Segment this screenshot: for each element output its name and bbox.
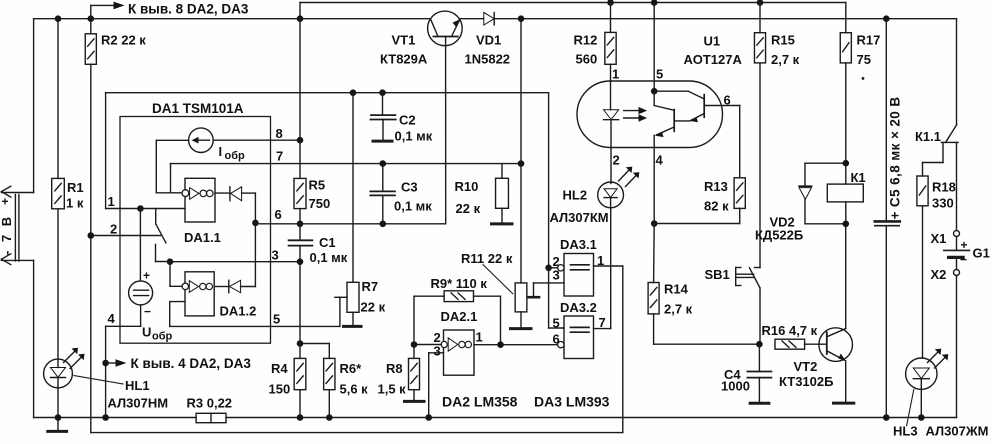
svg-text:R3 0,22: R3 0,22 [187,396,233,411]
node dot ref-C2 [379,89,386,96]
svg-text:5,6 к: 5,6 к [340,382,369,397]
wire pin4 common column [105,93,107,418]
svg-text:750: 750 [309,196,331,211]
node dot DA3.1 pin2 [545,265,552,272]
ground under HL1 [48,418,67,432]
HL1 light arrows [64,348,85,369]
label R13 [704,179,729,214]
svg-text:G1: G1 [973,246,990,261]
ground bar under R11 [511,327,532,330]
node dot pin7-C3 [380,160,387,167]
label DA2.1 pin2 [434,330,441,345]
label R14 [664,282,693,317]
node dot DA2 pin3 rail [425,414,432,421]
resistor R6 [324,358,335,417]
connector X1 [954,231,960,251]
label U1 pin5 [656,67,663,82]
svg-text:3: 3 [272,248,279,263]
wire DA3.2 pin5 [549,327,564,329]
node dot rail R2 [88,15,95,22]
label DA1 pin 8 [276,126,283,141]
wire DA1 pin2 [91,235,161,237]
label U1 [684,34,743,68]
svg-text:DA1.1: DA1.1 [184,230,221,245]
label DA3.2 pin5 num [553,316,560,331]
node dot R4 rail [297,414,304,421]
svg-text:6: 6 [553,332,560,347]
U1 phototransistor [651,3,740,148]
transistor VT1 [428,11,463,224]
svg-text:R18: R18 [932,180,956,195]
svg-text:0,1 мк: 0,1 мк [394,199,432,214]
label G1 minus [960,253,967,267]
wire I_obr left to DA1.1 input [156,140,188,193]
label R7 [361,279,386,315]
svg-text:АЛ307ЖМ: АЛ307ЖМ [926,424,989,439]
node dot pin4 R14 [651,220,658,227]
svg-text:+ С5 6,8 мк × 20 В: + С5 6,8 мк × 20 В [888,96,903,219]
svg-text:6: 6 [275,207,282,222]
wire R14 to R16 node [654,343,760,345]
svg-text:U: U [142,325,151,340]
op-amp DA1.1 [182,178,215,222]
label DA2.1 [441,309,478,324]
node dot R6 rail [326,414,333,421]
svg-text:VT2: VT2 [794,359,818,374]
label VT1 [380,33,428,67]
wire diode node vertical x255 [254,193,256,286]
label DA1 pin 1 [108,194,115,209]
svg-text:R13: R13 [704,179,728,194]
label DA3.1 pin2 num [553,254,560,269]
resistor R18 [917,176,928,358]
label I_obr [219,144,246,162]
label DA1 pin 7 [276,149,283,164]
diode VD2 [799,163,846,224]
wire pin4-R13 link y=223.5 [654,223,740,225]
svg-text:5: 5 [656,67,663,82]
svg-text:R2 22 к: R2 22 к [101,33,146,48]
label DA1 pin 2 [110,222,117,237]
label G1 plus [961,238,968,252]
node dot ref-R7 [350,89,357,96]
svg-text:+: + [143,269,150,283]
optocoupler U1 body [577,81,723,148]
ground bar under R10 [492,222,513,225]
wire pin7 net y=163.6 [171,164,522,193]
label R8 [378,361,407,397]
ground under C2 [373,140,392,143]
current source I_obr [189,128,214,153]
resistor R9 [414,291,501,345]
svg-text:Х1: Х1 [931,231,947,246]
node dot rail R11 column [518,15,525,22]
svg-text:HL2: HL2 [563,188,588,203]
svg-text:SB1: SB1 [705,267,730,282]
resistor R15 [754,3,765,268]
label DA1 pin 6 [275,207,282,222]
svg-text:- 7 В: - 7 В [0,214,14,255]
node dot HL3 rail [918,414,925,421]
node dot pin3 DA12 input [167,258,174,265]
label R4 [269,361,291,397]
svg-text:Х2: Х2 [931,267,947,282]
comparator DA3.1 [558,254,594,297]
wire to DA1.2 upper input [170,262,182,287]
label C2 [395,113,433,144]
resistor R13 [734,178,745,224]
label X1 [931,231,947,246]
wire feedback line y=432.6 (DA3.1 out to DA1 pin2 net) [91,432,623,434]
svg-text:R9* 110 к: R9* 110 к [431,276,488,291]
capacitor C2 [371,93,396,140]
diode DA1.2 output [214,280,255,292]
svg-text:DA3.1: DA3.1 [560,237,597,252]
voltage source U_obr [106,209,153,327]
wire pin6 net y=223.8 [255,222,445,225]
label K1 [851,170,866,185]
label DA1 pin 4 [108,311,116,326]
svg-text:обр: обр [152,331,173,343]
svg-text:+: + [2,195,9,209]
svg-text:R1: R1 [67,180,84,195]
resistor R17 [840,3,851,185]
input terminal X plus (+ lead) [1,186,33,197]
svg-text:2,7 к: 2,7 к [771,52,800,67]
node dot upper rail U1 pin5 [651,0,658,6]
ground bar under R8 [405,400,425,403]
label DA3.1 pin1 num [597,253,604,268]
relay contact K1.1 [923,125,959,177]
svg-text:КД522Б: КД522Б [755,228,803,243]
ground bar under VT2 [834,402,854,405]
LED HL3 [906,358,937,418]
svg-text:С2: С2 [399,113,416,128]
label R1 [66,180,84,211]
node dot diode node pin6 [252,220,259,227]
node dot rail x300 [297,15,304,22]
label R16 [762,323,818,338]
svg-text:К выв. 8 DA2, DA3: К выв. 8 DA2, DA3 [128,2,249,17]
svg-text:3: 3 [553,268,560,283]
svg-text:DA1.2: DA1.2 [220,304,257,319]
node dot pin4 bottom rail [102,414,109,421]
node dot pin6-R5C1 [297,221,304,228]
resistor R3 (shunt in bottom rail) [196,413,226,422]
chopper switch inside DA1 [156,209,171,262]
svg-text:R12: R12 [574,33,598,48]
label DA3.1 [560,237,597,252]
svg-text:0,1 мк: 0,1 мк [310,250,348,265]
node dot HL1 bottom rail [55,414,62,421]
svg-text:1000: 1000 [721,379,750,394]
capacitor C5 [875,19,900,418]
resistor R8 [409,345,420,401]
U1 light arrows [624,107,647,122]
svg-text:АЛ307КМ: АЛ307КМ [550,210,609,225]
svg-text:R16 4,7 к: R16 4,7 к [762,323,818,338]
svg-text:0,1 мк: 0,1 мк [395,129,433,144]
label R5 [309,178,331,212]
wire pin8 I_obr to R5 [213,139,300,141]
wire pin3 net y=261.7 [170,261,300,263]
svg-text:C1: C1 [319,235,336,250]
label DA3.2 pin6 num [553,332,560,347]
svg-text:7: 7 [276,149,283,164]
svg-text:HL3: HL3 [893,424,918,439]
svg-text:−: − [144,305,151,319]
node dot K vyv4 [102,360,109,367]
wire regulated rail from VD1 cathode to K1.1 [494,19,956,125]
svg-text:1N5822: 1N5822 [465,52,511,67]
svg-text:I: I [219,144,223,159]
node dot C1 pin3 [297,258,304,265]
node dot C5 rail bottom [883,414,890,421]
svg-text:4: 4 [656,153,664,168]
svg-text:К выв. 4 DA2, DA3: К выв. 4 DA2, DA3 [131,356,252,371]
svg-text:2,7 к: 2,7 к [664,302,693,317]
svg-text:R10: R10 [455,179,479,194]
label U1 pin4 [656,153,664,168]
svg-text:R4: R4 [271,361,288,376]
label R15 [771,33,800,68]
svg-text:DA2 LM358: DA2 LM358 [442,394,518,410]
node dot pin1 Uobr [137,205,144,212]
battery G1 [944,250,970,269]
resistor R12 [605,3,616,82]
svg-text:1: 1 [108,194,115,209]
svg-text:+: + [961,238,968,252]
label R3 [187,396,233,411]
svg-text:1: 1 [612,67,619,82]
svg-text:R8: R8 [386,361,403,376]
svg-text:R5: R5 [309,178,326,193]
svg-text:К1: К1 [851,170,866,185]
svg-text:DA1 TSM101A: DA1 TSM101A [152,101,244,116]
node dot DA2 input node [411,341,418,348]
node dot pin2 R2 [88,232,95,239]
label C1 [310,235,348,265]
svg-text:R17: R17 [857,33,881,48]
ground bar under R7 [344,325,362,328]
HL3 light arrows [928,349,949,368]
resistor R2 [85,19,96,433]
svg-text:1: 1 [476,330,483,345]
wire reference net y=92.7 [106,93,549,328]
connector X2 [954,270,960,276]
label U1 pin6 [724,93,731,108]
svg-text:С3: С3 [401,180,418,195]
input terminal X minus (- lead) [1,254,33,265]
wire upper +V branch rail y=2.5 [300,3,846,19]
arrow label K vyv 8 DA2 DA3 [91,2,249,19]
wire U1 pin6 to R13 [739,106,741,178]
label VD2 [755,215,803,243]
label VD1 [465,33,511,67]
resistor R1 [52,19,65,360]
svg-text:4: 4 [108,311,116,326]
svg-text:КТ3102Б: КТ3102Б [779,374,833,389]
svg-text:HL1: HL1 [125,378,150,393]
svg-text:560: 560 [576,52,598,67]
label U_obr [142,325,173,343]
svg-text:VT1: VT1 [392,33,416,48]
op-amp DA1.2 [182,272,214,316]
svg-text:R7: R7 [362,279,379,294]
U1 internal LED [604,81,619,148]
svg-text:К1.1: К1.1 [915,129,941,144]
node dot pin7-R11col [518,160,525,167]
label R2 [101,33,146,48]
svg-text:1 к: 1 к [66,196,84,211]
label DA2 LM358 DA3 LM393 [442,394,610,410]
svg-text:2: 2 [110,222,117,237]
label U_obr plus [143,269,150,283]
wire R4 R6 top link [300,344,329,359]
label DA1.1 [184,230,221,245]
node dot upper rail R15 [757,0,764,6]
node dot pin6-C3 [380,221,387,228]
wire negative bottom rail [34,260,957,417]
node dot R4 top [297,340,304,347]
svg-text:82 к: 82 к [704,199,729,214]
label C4 [721,367,750,394]
node dot SB1 R16 node [756,341,763,348]
label R18 [932,180,956,211]
svg-text:1,5 к: 1,5 к [378,382,407,397]
label C5 vertical [888,96,903,219]
capacitor C1 [289,224,313,344]
IC DA1 box [120,117,271,344]
svg-text:VD1: VD1 [476,33,501,48]
label DA1 pin 3 [272,248,279,263]
svg-text:АЛ307НМ: АЛ307НМ [108,396,169,411]
svg-text:2: 2 [613,153,620,168]
svg-text:R15: R15 [771,33,795,48]
svg-text:R6*: R6* [340,361,363,376]
label U1 pin2 [613,153,620,168]
svg-text:75: 75 [857,52,871,67]
input cable pair lines [15,195,19,262]
LED HL1 [44,359,73,417]
label DA3.2 [560,300,597,315]
svg-text:DA3.2: DA3.2 [560,300,597,315]
svg-text:КТ829А: КТ829А [380,52,428,67]
wire DA1.2 lower input pin5 [170,302,340,327]
LED HL2 [598,148,624,208]
label U_obr minus [144,305,151,319]
resistor R16 [775,339,827,349]
svg-text:5: 5 [553,316,560,331]
label DA1.2 [220,304,257,319]
relay coil K1 [827,184,863,224]
pushbutton SB1 [736,268,760,345]
svg-text:1: 1 [597,253,604,268]
wire U1 pin4 to R14 [653,148,655,224]
svg-text:7: 7 [599,315,606,330]
wire +7V rail left segment to VT1 collector [34,19,431,193]
label K1.1 [915,129,941,144]
label X2 [931,267,947,282]
svg-text:U1: U1 [704,34,721,49]
capacitor C3 [370,164,395,224]
resistor R4 [294,344,306,418]
wire DA2.1 pin3 from rail [429,353,444,418]
svg-text:обр: обр [225,150,246,162]
comparator DA3.2 [558,316,594,359]
node dot rail R1 [55,15,62,22]
ground bar DA3.1 pin3 [528,296,539,299]
wire DA3.1 output pin1 [594,266,623,433]
wire DA2.1 output to DA3.2 pin6 [474,344,558,346]
wire DA3.1 pin3 to ground stub [534,283,565,297]
label HL2 [550,188,609,226]
label C3 [394,180,432,214]
resistor R5 [294,19,306,224]
node dot upper rail R12 [607,0,614,6]
node dot DA2 output R9 [497,341,504,348]
label HL3 with leader [893,389,988,438]
svg-text:150: 150 [269,382,291,397]
HL2 light arrows [619,167,640,187]
wire DA3.1 pin2 [549,267,558,269]
label R11 with leader [461,251,513,294]
label R6 [340,361,369,397]
svg-text:DA3 LM393: DA3 LM393 [534,394,610,410]
diode VD1 [459,12,494,25]
label R12 [574,33,598,67]
node dot rail C5 [883,15,890,22]
svg-text:5: 5 [273,312,280,327]
wire K1.1 to X1 [956,142,958,230]
arrow label K vyv 4 DA2 DA3 [106,356,252,371]
label R17 [857,33,881,80]
wire DA2.1 input [414,344,441,346]
wire DA1 pin1 input [106,208,185,210]
svg-text:R11 22 к: R11 22 к [461,251,513,266]
diode DA1.1 output [215,187,255,201]
label VT2 [779,359,833,389]
label DA3.1 pin3 num [553,268,560,283]
transistor VT2 [819,328,853,402]
node dot VD2 top K1 [843,160,850,167]
label DA2.1 pin3 [434,344,441,359]
resistor R11 [515,19,527,328]
svg-text:22 к: 22 к [456,201,481,216]
node dot pin8 R5 [297,137,304,144]
svg-text:8: 8 [276,126,283,141]
svg-text:DA2.1: DA2.1 [441,309,478,324]
label G1 [973,246,990,261]
label R9 [431,276,488,291]
label DA3.2 pin7 num [599,315,606,330]
resistor R7 [347,93,359,326]
wire pin5 riser to R7 left [335,297,347,326]
wire DA3.2 output pin7 to HL2 [594,208,611,329]
label DA1 pin 5 [273,312,280,327]
ground bar under C4 [750,402,769,405]
resistor R10 [496,164,509,223]
node dot VD2 bottom K1 [843,221,850,228]
svg-text:3: 3 [434,344,441,359]
capacitor C4 [747,344,771,402]
label SB1 [705,267,730,282]
svg-text:22 к: 22 к [361,300,386,315]
svg-text:АОТ127А: АОТ127А [684,52,743,67]
label DA1 TSM101A [152,101,244,116]
label DA2.1 pin1 [476,330,483,345]
svg-text:R14: R14 [664,282,689,297]
